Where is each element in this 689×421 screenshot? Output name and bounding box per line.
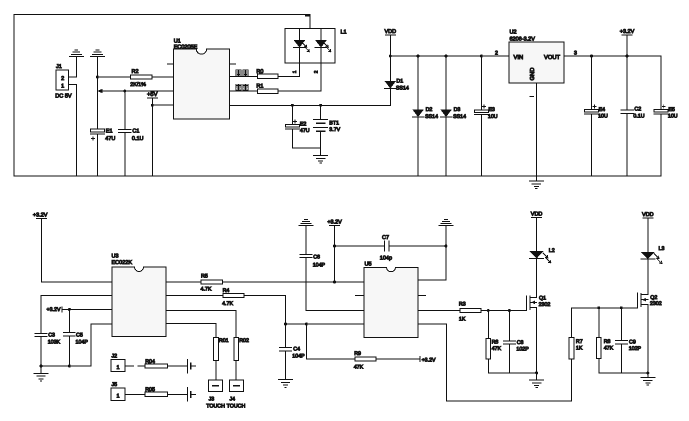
svg-text:R4: R4 (223, 288, 230, 294)
svg-text:R3: R3 (459, 302, 466, 308)
svg-text:EC0205E: EC0205E (174, 45, 198, 51)
svg-text:EC022K: EC022K (112, 260, 133, 266)
svg-text:+3.2V: +3.2V (422, 357, 436, 363)
svg-text:104P: 104P (292, 353, 305, 359)
svg-text:L3: L3 (659, 246, 665, 252)
svg-text:+3.2V: +3.2V (327, 220, 342, 226)
svg-text:D3: D3 (454, 107, 461, 113)
svg-text:C9: C9 (629, 339, 636, 345)
svg-text:VDD: VDD (531, 212, 543, 218)
svg-text:10U: 10U (668, 114, 678, 120)
svg-text:J2: J2 (112, 354, 118, 360)
svg-text:Q2: Q2 (650, 295, 657, 301)
svg-text:+3.2V: +3.2V (620, 29, 635, 35)
svg-text:2: 2 (495, 50, 498, 56)
svg-text:U2: U2 (510, 29, 517, 35)
svg-text:VDD: VDD (384, 29, 396, 35)
svg-text:47K: 47K (354, 364, 364, 370)
svg-text:+5V: +5V (147, 92, 158, 98)
svg-text:VDD: VDD (642, 212, 654, 218)
svg-text:R5: R5 (201, 274, 208, 280)
svg-text:SS14: SS14 (453, 114, 466, 120)
svg-text:3: 3 (574, 50, 577, 56)
svg-text:E3: E3 (488, 107, 495, 113)
svg-text:104p: 104p (380, 255, 392, 261)
svg-text:R01: R01 (219, 338, 229, 344)
svg-text:L1: L1 (341, 30, 347, 36)
svg-text:1K: 1K (576, 346, 583, 352)
svg-text:4.7K: 4.7K (222, 301, 233, 307)
svg-text:2: 2 (61, 76, 64, 82)
svg-text:47U: 47U (105, 136, 115, 142)
svg-text:J4: J4 (230, 397, 236, 403)
svg-text:R9: R9 (354, 351, 361, 357)
svg-text:C3: C3 (48, 333, 55, 339)
svg-text:C2: C2 (634, 107, 641, 113)
svg-text:1: 1 (292, 70, 298, 73)
svg-text:J5: J5 (112, 382, 118, 388)
svg-text:L2: L2 (549, 248, 555, 254)
svg-text:C1: C1 (132, 129, 139, 135)
svg-text:U5: U5 (365, 261, 372, 267)
svg-text:47K: 47K (604, 346, 614, 352)
svg-text:R04: R04 (145, 359, 155, 365)
svg-text:+3.2V: +3.2V (47, 307, 61, 313)
svg-text:D2: D2 (426, 107, 433, 113)
svg-text:J1: J1 (56, 64, 62, 70)
svg-text:C6: C6 (313, 255, 320, 261)
svg-text:103K: 103K (48, 340, 61, 346)
svg-text:E2: E2 (300, 121, 307, 127)
svg-text:C5: C5 (76, 333, 83, 339)
svg-text:2: 2 (313, 70, 319, 73)
svg-text:TOUCH: TOUCH (227, 404, 246, 410)
svg-text:U3: U3 (112, 253, 119, 259)
svg-text:0.1U: 0.1U (132, 136, 144, 142)
svg-text:+3.2V: +3.2V (33, 213, 48, 219)
svg-text:R05: R05 (145, 387, 155, 393)
svg-text:E4: E4 (599, 107, 606, 113)
svg-text:R1: R1 (256, 84, 263, 90)
svg-text:E1: E1 (106, 129, 113, 135)
svg-text:E5: E5 (668, 107, 675, 113)
svg-text:C7: C7 (382, 235, 389, 241)
svg-text:1: 1 (61, 84, 64, 90)
svg-text:1: 1 (116, 394, 119, 400)
svg-text:104P: 104P (313, 262, 326, 268)
svg-text:R7: R7 (576, 339, 583, 345)
svg-text:4.7K: 4.7K (201, 286, 212, 292)
svg-text:R8: R8 (604, 339, 611, 345)
svg-text:47U: 47U (300, 128, 310, 134)
svg-text:6206-3.2V: 6206-3.2V (510, 36, 536, 42)
svg-text:SS14: SS14 (396, 85, 409, 91)
svg-text:R2: R2 (132, 69, 139, 75)
svg-text:R6: R6 (492, 339, 499, 345)
svg-text:TOUCH: TOUCH (206, 404, 225, 410)
svg-text:J3: J3 (209, 397, 215, 403)
svg-text:0.1U: 0.1U (633, 114, 644, 120)
svg-text:C4: C4 (293, 346, 300, 352)
svg-text:2K/1%: 2K/1% (130, 82, 146, 88)
svg-text:2302: 2302 (539, 302, 551, 308)
svg-text:102P: 102P (516, 346, 529, 352)
svg-text:SS14: SS14 (425, 114, 438, 120)
svg-text:1K: 1K (459, 317, 466, 323)
svg-text:1: 1 (116, 365, 119, 371)
svg-text:BT1: BT1 (329, 120, 339, 126)
svg-text:D1: D1 (396, 79, 403, 85)
svg-text:10U: 10U (488, 114, 498, 120)
svg-text:C8: C8 (517, 340, 524, 346)
svg-text:102P: 102P (629, 346, 642, 352)
svg-text:DC 5V: DC 5V (55, 93, 72, 99)
svg-text:3.7V: 3.7V (329, 127, 340, 133)
svg-text:47K: 47K (492, 346, 502, 352)
svg-text:VOUT: VOUT (544, 54, 561, 61)
svg-text:GND: GND (529, 68, 536, 81)
svg-text:10U: 10U (598, 114, 608, 120)
svg-text:R02: R02 (239, 338, 249, 344)
svg-text:Q1: Q1 (539, 295, 546, 301)
svg-text:R0: R0 (256, 69, 263, 75)
svg-text:2302: 2302 (650, 301, 662, 307)
svg-text:104P: 104P (76, 340, 89, 346)
svg-text:VIN: VIN (514, 55, 524, 61)
